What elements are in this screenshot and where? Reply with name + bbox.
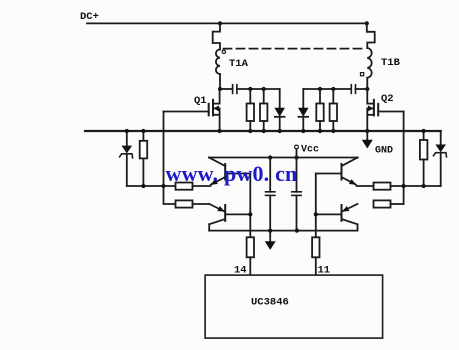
wire driver ground rail (209, 230, 357, 232)
wire Vcc rail (209, 157, 358, 159)
capacitor C3 (269, 158, 271, 192)
mosfet Q1 (209, 89, 220, 131)
terminal Vcc (295, 145, 299, 149)
capacitor C1 snubber left (232, 85, 234, 94)
wire Q2 gate (378, 111, 403, 113)
node dot C3 bottom (268, 229, 272, 233)
node dot R2 bottom (262, 129, 266, 133)
resistor R2 snubber (263, 89, 265, 104)
node dot R12 top (422, 129, 426, 133)
svg-text:GND: GND (375, 146, 393, 157)
wire cap C2 to Q2 drain node (356, 88, 368, 90)
node dot Q2 source (365, 129, 369, 133)
wire T1B bottom lead (366, 78, 368, 89)
node junction dot T1A top (218, 21, 222, 25)
wire snubber top right (303, 88, 351, 90)
phase dot T1A (222, 50, 225, 53)
wire T1A bottom lead (219, 74, 221, 89)
node Q1 drain junction (218, 87, 222, 91)
wire source bus (85, 130, 441, 132)
wire DC+ top rail (87, 22, 367, 24)
svg-text:DC+: DC+ (80, 11, 99, 23)
node dot R3 top (318, 87, 322, 91)
phase square T1B (361, 73, 364, 76)
resistor R5 gate-source left (142, 131, 144, 141)
node junction dot T1B top (365, 21, 369, 25)
wire gate return left (127, 185, 176, 187)
transformer winding T1A (216, 49, 220, 74)
IC U1 UC3846 (205, 275, 383, 338)
diode D2 snubber right (302, 89, 304, 108)
mosfet Q2 (367, 89, 378, 131)
transistor Q5 upper right NPN (316, 158, 358, 185)
node dot R5 bottom (141, 184, 145, 188)
resistor R8 base left (247, 237, 254, 257)
wire emitter to R10 (357, 185, 374, 187)
node dot R12 bottom (422, 184, 426, 188)
zener D4 right (440, 131, 442, 145)
node dot R2 top (262, 87, 266, 91)
wire Q2 gate vertical (403, 112, 405, 205)
transistor Q3 upper left NPN (209, 158, 250, 185)
node dot D1 bottom (278, 129, 282, 133)
node dot Vcc tap (294, 155, 298, 159)
svg-text:T1A: T1A (229, 58, 249, 70)
resistor R11 drive lower right (374, 200, 391, 207)
wire snubber top left (237, 88, 280, 90)
wire T1A jog (213, 23, 220, 49)
node dot base right (314, 212, 318, 216)
svg-text:UC3846: UC3846 (251, 297, 289, 309)
node dot R4 top (331, 87, 335, 91)
resistor R1 snubber (249, 89, 251, 104)
transistor Q4 lower left PNP (209, 204, 250, 231)
node dot R1 top (248, 87, 252, 91)
svg-text:Q2: Q2 (381, 93, 394, 105)
wire gate return right (391, 185, 441, 187)
node dot C3 top (268, 155, 272, 159)
resistor R4 snubber (332, 89, 334, 104)
node dot R4 bottom (331, 129, 335, 133)
wire Q1 gate (164, 111, 209, 113)
transformer winding T1B (367, 48, 371, 78)
coupling dashed line (224, 48, 364, 50)
node dot base left (248, 212, 252, 216)
resistor R12 gate-source right (423, 131, 425, 140)
resistor R6 drive upper left (176, 183, 193, 190)
node dot Q1 source (218, 129, 222, 133)
wire base line right to pin11 (315, 174, 317, 238)
wire base line left to pin14 (249, 174, 251, 238)
resistor R10 drive upper right (374, 183, 391, 190)
wire Q1 gate vertical (164, 112, 176, 205)
node dot R3 bottom (318, 129, 322, 133)
transistor Q6 lower right PNP (316, 204, 358, 231)
node dot D2 bottom (301, 129, 305, 133)
wire T1B jog (367, 23, 375, 48)
wire R11 to gate corner (391, 203, 404, 205)
ground symbol at driver rail (269, 231, 271, 242)
ground symbol GND at bus (366, 131, 368, 140)
svg-text:T1B: T1B (381, 57, 401, 69)
svg-text:www. pw0. cn: www. pw0. cn (166, 161, 298, 186)
wire R7 to emitter (193, 203, 210, 205)
zener D3 left (126, 131, 128, 146)
resistor R9 base right (312, 237, 319, 257)
diode D1 snubber left (279, 89, 281, 108)
node dot R5 top (141, 129, 145, 133)
node dot gate line right (402, 184, 406, 188)
svg-text:Q1: Q1 (194, 95, 207, 107)
node dot R1 bottom (248, 129, 252, 133)
svg-text:Vcc: Vcc (301, 145, 319, 156)
wire drain node to cap C1 (220, 88, 233, 90)
node Q2 drain junction (365, 87, 369, 91)
node dot C4 bottom (295, 229, 299, 233)
capacitor C2 snubber right (350, 85, 352, 94)
resistor R7 drive lower left (176, 200, 193, 207)
node dot D3 top (125, 129, 129, 133)
resistor R3 snubber (319, 89, 321, 104)
node dot gate line left (161, 184, 165, 188)
wire R6 to emitter (193, 185, 211, 187)
capacitor C4 (296, 158, 298, 192)
